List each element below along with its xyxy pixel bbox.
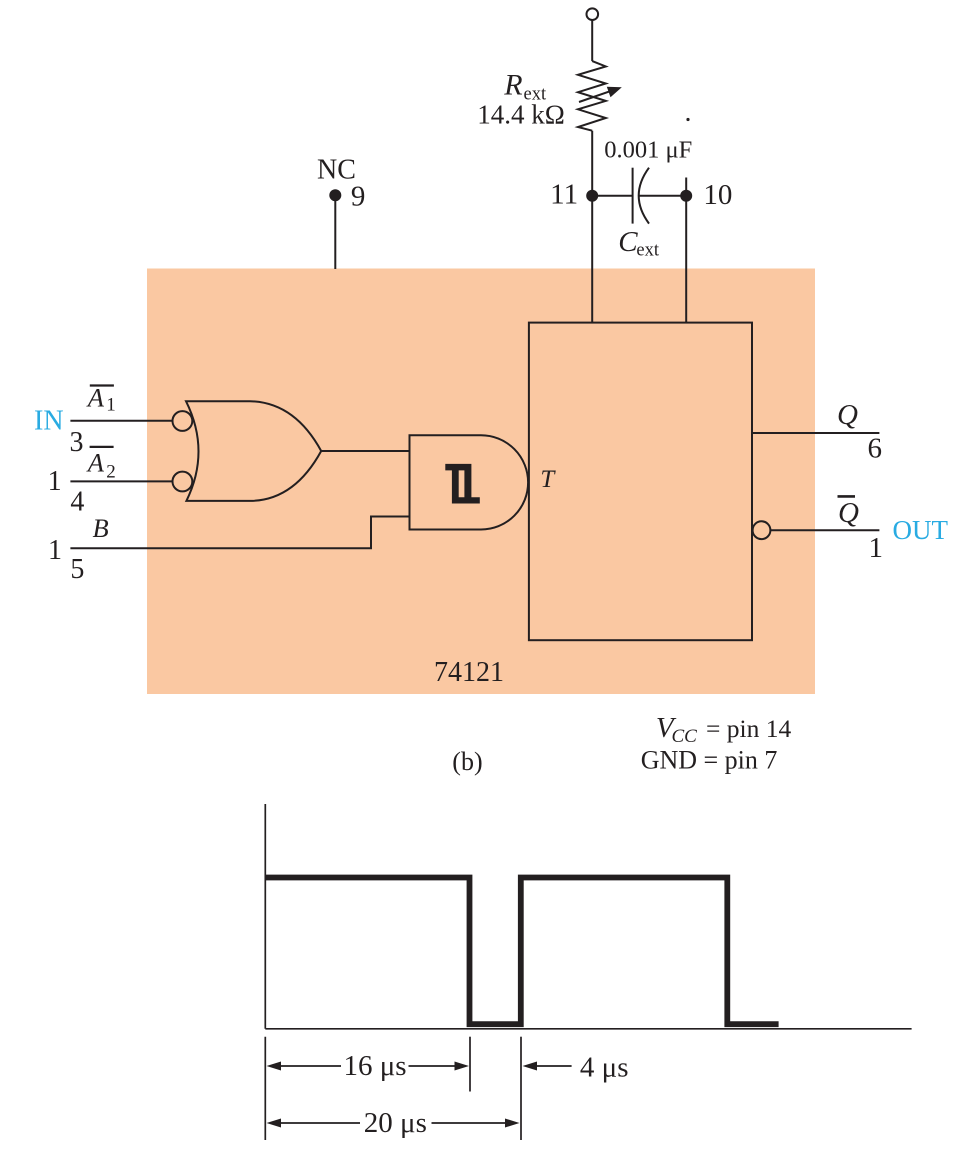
svg-text:T: T (540, 466, 556, 493)
svg-text:11: 11 (550, 179, 578, 211)
svg-text:IN: IN (34, 406, 64, 437)
svg-text:GND = pin 7: GND = pin 7 (641, 746, 778, 775)
svg-text:C: C (618, 226, 638, 258)
svg-text:1: 1 (48, 535, 62, 566)
svg-text:3: 3 (70, 427, 84, 458)
svg-text:1: 1 (48, 466, 62, 497)
svg-text:5: 5 (70, 554, 84, 585)
svg-text:R: R (503, 69, 522, 102)
svg-text:16 μs: 16 μs (344, 1050, 407, 1082)
svg-text:(b): (b) (452, 747, 482, 776)
svg-text:4: 4 (70, 487, 84, 518)
svg-text:74121: 74121 (434, 657, 504, 688)
svg-text:A: A (86, 447, 105, 477)
svg-text:9: 9 (351, 180, 366, 212)
svg-text:CC: CC (672, 726, 698, 747)
svg-text:20 μs: 20 μs (364, 1107, 427, 1139)
svg-text:10: 10 (703, 179, 732, 211)
svg-text:= pin 14: = pin 14 (706, 714, 791, 743)
svg-text:ext: ext (636, 241, 659, 261)
svg-text:1: 1 (106, 395, 116, 416)
svg-text:4 μs: 4 μs (580, 1052, 629, 1084)
svg-text:A: A (86, 382, 105, 412)
svg-text:Q: Q (837, 399, 858, 431)
svg-text:2: 2 (106, 462, 116, 483)
svg-text:6: 6 (868, 433, 883, 465)
svg-text:14.4 kΩ: 14.4 kΩ (477, 100, 565, 130)
svg-text:0.001 μF: 0.001 μF (604, 137, 692, 164)
svg-text:B: B (93, 513, 109, 543)
svg-text:1: 1 (869, 532, 884, 564)
svg-text:Q: Q (838, 497, 859, 529)
svg-text:OUT: OUT (893, 515, 949, 545)
